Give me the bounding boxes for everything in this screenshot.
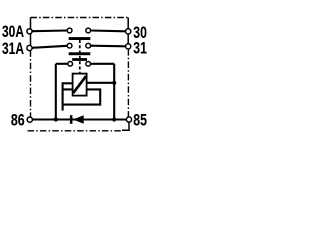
junction dot 85 branch <box>112 117 116 121</box>
frame bottom right return to 85 <box>122 122 129 130</box>
NC contact circle left <box>68 61 73 66</box>
relay schematic (Hella battery relay pictogram) <box>0 0 150 150</box>
wire left drop 86 branch <box>55 64 57 120</box>
NC contact bar <box>72 58 87 61</box>
wire coil left terminal <box>63 83 73 104</box>
stub below box <box>62 105 64 111</box>
svg-text:31: 31 <box>133 39 147 57</box>
wire 30A to contact <box>32 29 67 32</box>
contact circle 31 side <box>86 43 91 48</box>
junction dot coil right <box>112 81 116 85</box>
contact circle 30A side <box>67 28 72 33</box>
wire 31A to contact <box>32 46 67 48</box>
coil K1 <box>73 74 87 96</box>
junction dot 86 branch <box>54 117 58 121</box>
contact circle 30 side <box>86 28 91 33</box>
terminal 31A <box>27 45 32 50</box>
NC contact wire left <box>56 63 68 65</box>
contact bridge bar 1 (30A-30) <box>69 37 91 40</box>
contact circle 31A side <box>67 43 72 48</box>
contact bridge bar 2 (31A-31) <box>69 52 91 55</box>
wire contact to 31 <box>91 45 126 48</box>
svg-text:31A: 31A <box>2 40 24 58</box>
wire contact to 30 <box>91 29 126 32</box>
diode D1 cathode bar <box>70 115 73 124</box>
terminal 30 <box>126 29 131 34</box>
svg-text:85: 85 <box>133 111 147 129</box>
svg-text:30A: 30A <box>2 23 24 41</box>
coil diagonal <box>73 76 86 93</box>
actuator dashed link <box>79 40 81 74</box>
NC contact circle right <box>86 61 91 66</box>
NC contact wire right <box>91 63 115 65</box>
terminal 86 <box>27 117 32 122</box>
wire right drop 85 branch <box>113 64 115 120</box>
terminal 85 <box>126 117 131 122</box>
diode D1 triangle <box>73 115 84 123</box>
electronics box U1 <box>63 89 101 104</box>
svg-text:86: 86 <box>11 111 25 129</box>
wire coil right terminal <box>87 82 115 84</box>
terminal 30A <box>27 29 32 34</box>
wire 86 to 85 bottom <box>32 118 127 120</box>
terminal 31 <box>126 44 131 49</box>
relay housing frame (dash-dot border) <box>28 18 129 131</box>
